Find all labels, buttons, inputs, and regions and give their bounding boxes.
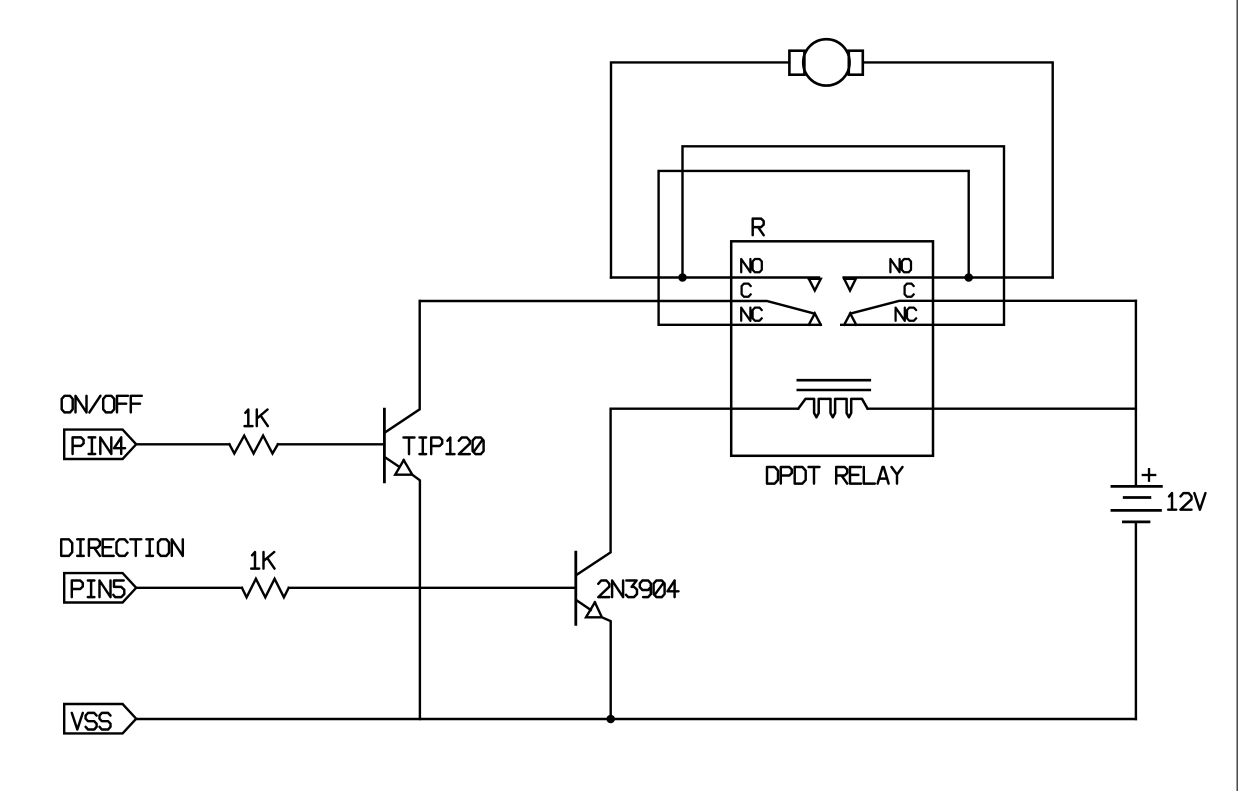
battery B1 plate short 1 [1124,496,1150,499]
label PIN5 [72,581,125,598]
wire R1 to Q1 base [278,443,385,445]
label 12V [1168,493,1205,510]
label NO left [741,259,762,272]
Q2 collector to relay coil [577,409,799,575]
relay NC-right contact triangle [844,313,856,324]
label 1K lower [251,552,274,569]
battery B1 plate long 1 [1112,485,1162,488]
wire VSS rail [136,718,1136,720]
label ON/OFF [62,396,142,413]
resistor R2 1K [242,579,289,598]
scan edge line [1236,0,1238,791]
battery B1 plate short 2 [1123,521,1149,524]
wire NC-left to NO-right [659,171,969,325]
transistor Q2 2N3904 base bar [574,552,577,624]
port tag PIN4 [64,430,136,459]
transistor Q1 TIP120 base bar [383,409,386,482]
label PIN4 [73,437,126,454]
wire PIN5 to R2 [136,587,242,589]
wire Q1 emitter to VSS [412,475,420,719]
relay coil K1 [798,399,867,417]
Q1 emitter [385,457,400,467]
port tag PIN5 [64,573,136,602]
wire R2 to Q2 base [289,587,576,589]
relay box [731,241,933,455]
label R [753,219,764,236]
resistor R1 1K [229,436,278,454]
label VSS [72,713,111,730]
motor M1 [789,39,862,85]
relay NO-left contact triangle [809,279,821,291]
battery B1 plate long 2 [1112,509,1161,512]
port tag VSS [64,704,136,733]
Q2 emitter arrow [586,602,602,617]
wire battery - to VSS [1135,523,1137,719]
label TIP120 [404,438,484,455]
relay coil core line 2 [798,389,870,392]
wire coil right to battery [868,408,1136,410]
junction dot left NO [678,273,687,282]
label NC right [896,308,917,321]
relay C-left arm [420,301,815,314]
junction dot VSS [606,715,615,724]
label 2N3904 [598,581,678,598]
junction dot right NO [964,273,973,282]
label C left [742,284,751,297]
label NC left [741,308,762,321]
wire Q2 emitter to VSS [602,617,611,719]
label C right [905,284,914,297]
wire motor left to relay NO-left [611,62,789,277]
relay coil core line 1 [798,379,870,382]
wire NO-left to NC-right [683,146,1005,324]
relay NO-left line [611,276,819,278]
relay C-right arm [850,301,1136,314]
Q2 emitter [577,600,591,610]
label + battery [1143,474,1155,476]
wire PIN4 to R1 [136,443,229,445]
relay NO-right contact triangle [844,279,856,291]
wire relay C-right to battery + [1135,301,1137,486]
label DIRECTION [61,539,183,556]
Q1 emitter arrow [395,460,412,475]
relay NO-right line [844,276,1053,278]
wire motor right to relay NO-right [863,62,1053,277]
relay NC-left contact triangle [809,313,821,324]
label DPDT RELAY [767,467,903,484]
label 1K upper [245,410,268,427]
label NO right [890,259,911,272]
Q1 collector [385,301,420,432]
